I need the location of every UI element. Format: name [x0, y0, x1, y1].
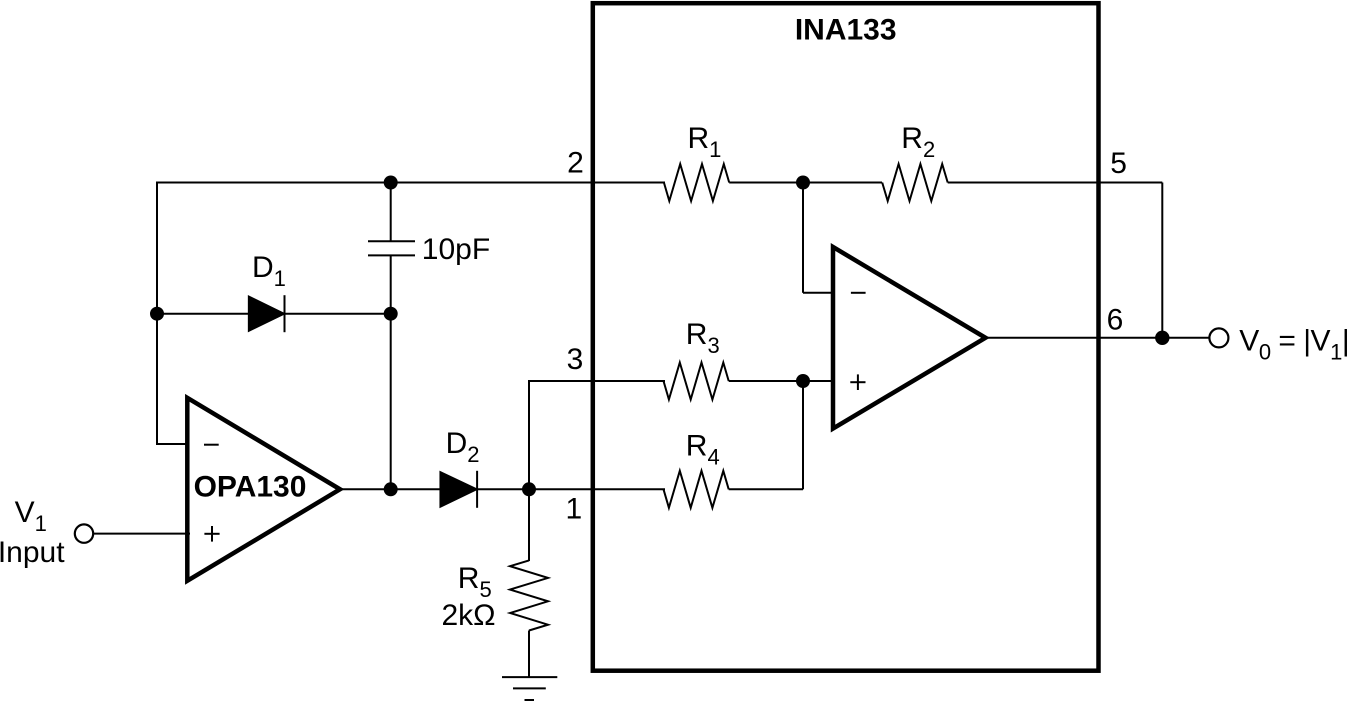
resistor R4	[664, 471, 729, 508]
wire capacitor bottom lead	[390, 255, 392, 489]
svg-text:6: 6	[1107, 303, 1124, 336]
ground	[502, 677, 557, 700]
wire inverting feedback vertical	[802, 183, 804, 293]
wire R4 right	[729, 488, 803, 490]
svg-text:2: 2	[567, 147, 584, 180]
wire U2 inverting stub	[803, 292, 836, 294]
output terminal	[1209, 328, 1228, 347]
wire pin 5 vertical	[1161, 183, 1163, 338]
U2 minus sign	[851, 292, 866, 294]
svg-text:1: 1	[566, 492, 583, 525]
wire node1 vertical (pin3 to R5)	[528, 380, 530, 561]
svg-text:2kΩ: 2kΩ	[442, 599, 496, 632]
svg-text:D2: D2	[446, 427, 480, 467]
wire OPA130 inverting input stub	[156, 443, 190, 445]
svg-text:5: 5	[1110, 147, 1127, 180]
node R1-R2 junction	[796, 176, 810, 190]
op-amp U2	[833, 247, 986, 429]
wire R4 vertical up	[802, 380, 804, 489]
wire pin 3 horizontal	[529, 380, 665, 382]
IC outline INA133 box	[593, 3, 1099, 671]
svg-text:R5: R5	[458, 562, 492, 602]
wire OPA130 output	[339, 488, 529, 490]
svg-text:R1: R1	[688, 122, 722, 162]
node junction top (cap)	[384, 176, 398, 190]
wire left feedback vertical	[156, 182, 158, 446]
wire R1 to R2	[729, 182, 882, 184]
diode D2	[440, 471, 477, 508]
wire pin 5 horizontal	[948, 182, 1163, 184]
svg-text:10pF: 10pF	[422, 233, 490, 266]
svg-text:OPA130: OPA130	[194, 471, 307, 504]
node D1 right	[384, 307, 398, 321]
wire top feedback (to pin 2 / R1)	[157, 182, 665, 184]
U1 plus sign	[204, 526, 219, 542]
svg-text:V1: V1	[15, 496, 47, 536]
node D1 left	[150, 307, 164, 321]
wire input to noninverting	[94, 533, 191, 535]
resistor R5	[510, 560, 548, 630]
node output/cap junction	[384, 482, 398, 496]
wire R3 to noninverting	[729, 380, 836, 382]
svg-text:R4: R4	[686, 429, 720, 469]
svg-text:R2: R2	[901, 122, 935, 162]
resistor R2	[882, 164, 948, 201]
wire node1 into box (pin 1 / R4)	[529, 488, 665, 490]
resistor R3	[664, 363, 729, 400]
capacitor C1	[368, 241, 415, 255]
diode D1	[249, 295, 285, 332]
svg-text:R3: R3	[686, 318, 720, 358]
node output junction	[1155, 331, 1169, 345]
wire U2 output	[985, 337, 1210, 339]
svg-text:V0 = |V1|: V0 = |V1|	[1239, 324, 1347, 364]
op-amp U1 OPA130	[187, 398, 340, 581]
svg-text:D1: D1	[252, 251, 286, 291]
input terminal	[75, 524, 93, 542]
svg-text:INA133: INA133	[795, 14, 897, 47]
wire D1 branch	[157, 313, 391, 315]
wire R5 to ground	[528, 631, 530, 678]
wire capacitor top lead	[390, 182, 392, 242]
node D2 cathode junction	[522, 482, 536, 496]
resistor R1	[664, 164, 729, 201]
svg-text:3: 3	[567, 343, 584, 376]
svg-text:Input: Input	[0, 536, 65, 569]
U2 plus sign	[850, 374, 865, 390]
node noninverting junction	[796, 374, 810, 388]
U1 minus sign	[204, 444, 219, 446]
